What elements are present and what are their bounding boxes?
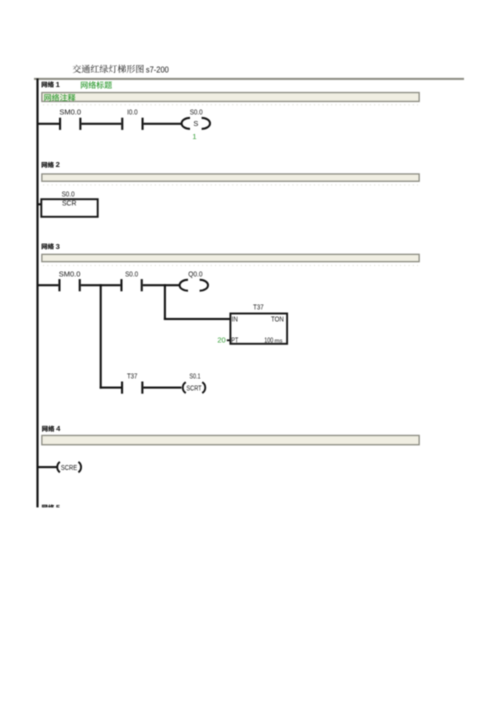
- contact T37: [121, 382, 123, 394]
- svg-text:2: 2: [56, 160, 60, 169]
- coil S0.0 set: [182, 118, 190, 129]
- network 1 comment box: [42, 93, 419, 102]
- contact I0.0: [121, 118, 123, 130]
- svg-text:1: 1: [192, 132, 196, 141]
- network 4 comment bar: [42, 435, 419, 444]
- wire rail to SM0.0: [38, 123, 60, 125]
- contact S0.0 n3: [120, 279, 122, 291]
- svg-text:100: 100: [264, 336, 273, 345]
- svg-text:SCR: SCR: [62, 198, 76, 207]
- wire branch to timer IN pin: [164, 318, 231, 320]
- svg-text:I0.0: I0.0: [127, 107, 138, 116]
- svg-text:3: 3: [56, 242, 60, 251]
- svg-text:SCRT: SCRT: [186, 383, 201, 392]
- network 3 header 网络: [42, 243, 54, 249]
- wire rail to SM0.0 (n3): [38, 284, 59, 286]
- faint dotted ghost line under network 3 bar: [43, 264, 418, 266]
- network 1 header 网络: [42, 81, 54, 87]
- svg-text:T37: T37: [127, 372, 138, 381]
- svg-text:TON: TON: [271, 315, 284, 324]
- wire S0.0 to Q0.0 coil: [143, 284, 179, 286]
- top separator line: [34, 78, 464, 80]
- coil SCRT (transition): [183, 382, 186, 393]
- wire SM0.0 to I0.0: [81, 123, 121, 125]
- network 2 comment bar: [42, 174, 419, 181]
- svg-text:20: 20: [217, 336, 225, 345]
- wire branch to T37 contact: [100, 387, 121, 389]
- svg-text:S: S: [193, 119, 198, 128]
- svg-text:SM0.0: SM0.0: [59, 107, 81, 116]
- left power rail: [36, 78, 38, 507]
- svg-text:S0.0: S0.0: [125, 270, 138, 279]
- faint dotted ghost line under network 1 comment: [43, 104, 418, 106]
- network 5 header (clipped) 网络 5: [42, 503, 61, 512]
- svg-text:IN: IN: [232, 315, 238, 324]
- network 2 header 网络: [42, 162, 54, 168]
- coil Q0.0: [180, 280, 188, 291]
- wire rail to SCRE coil: [38, 466, 58, 468]
- contact SM0.0 n1: [59, 118, 61, 130]
- network 4 header 网络: [42, 426, 54, 432]
- branch wire down to timer IN: [164, 284, 166, 320]
- wire SM0.0 to S0.0 with junction: [81, 284, 121, 286]
- timer box TON: [230, 314, 287, 344]
- title 交通红绿灯梯形图: [73, 65, 144, 73]
- network 3 comment bar: [42, 254, 419, 261]
- wire 20 to PT pin: [227, 339, 231, 341]
- wire I0.0 to S coil: [144, 123, 181, 125]
- wire rail to SCR box: [38, 203, 42, 205]
- svg-text:T37: T37: [253, 303, 264, 312]
- SCR box: [41, 199, 97, 217]
- svg-text:Q0.0: Q0.0: [188, 270, 202, 279]
- svg-text:S0.0: S0.0: [62, 189, 75, 198]
- svg-text:ms: ms: [275, 339, 283, 345]
- contact SM0.0 n3: [58, 279, 60, 291]
- network 1 comment 网络注释: [44, 94, 75, 102]
- wire T37 to SCRT coil: [143, 387, 181, 389]
- svg-text:SM0.0: SM0.0: [59, 270, 81, 279]
- faint dotted ghost line under network 2 bar: [43, 184, 418, 186]
- coil SCRE (end): [57, 462, 60, 472]
- svg-text:SCRE: SCRE: [61, 463, 77, 472]
- network 1 title 网络标题: [81, 81, 112, 89]
- branch wire down to T37 rung: [100, 284, 102, 388]
- svg-text:S0.1: S0.1: [189, 372, 200, 381]
- svg-text:s7-200: s7-200: [146, 66, 169, 75]
- svg-text:S0.0: S0.0: [190, 107, 203, 116]
- svg-text:PT: PT: [231, 336, 238, 345]
